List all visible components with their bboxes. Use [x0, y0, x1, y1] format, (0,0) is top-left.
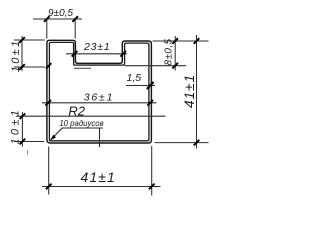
dimension 10±1 top-left lower tick: [19, 64, 25, 70]
dimension 9±0,5 left extension: [46, 19, 48, 39]
svg-text:8±0,5: 8±0,5: [164, 38, 175, 65]
dimension 10±1 bottom-left lower tick: [20, 139, 26, 145]
shared top extension (8±0,5 and right 41±1): [153, 40, 209, 42]
dimension 9±0,5 line: [33, 18, 82, 20]
note leader arrowhead: [50, 135, 56, 141]
note underline: [62, 127, 103, 129]
dimension 10±1 bottom-left lower extension: [14, 141, 44, 143]
dimension 41±1 right line: [196, 35, 198, 149]
svg-text:R2: R2: [68, 104, 85, 119]
svg-text:10 радиусов: 10 радиусов: [59, 119, 103, 128]
dimension 9±0,5 right tick: [72, 16, 78, 22]
dimension 1,5 tick on wall: [147, 82, 154, 89]
scan speck: [27, 150, 29, 155]
note leader diagonal: [52, 128, 63, 139]
dimension 1,5 line: [126, 85, 155, 87]
inner ledge segment under left tab: [74, 67, 91, 69]
dimension 8±0,5 lower extension: [125, 65, 186, 67]
svg-text:23±1: 23±1: [83, 41, 110, 53]
note leader vertical branch: [99, 128, 101, 147]
dimension 10±1 bottom-left upper tick: [20, 113, 26, 119]
svg-text:9±0,5: 9±0,5: [48, 8, 73, 19]
dimension 41±1 bottom line: [42, 186, 161, 188]
dimension 41±1 bottom right extension: [151, 146, 153, 196]
dimension 41±1 right lower extension: [155, 142, 209, 144]
dimension 10±1 top-left line: [21, 36, 23, 71]
dimension 41±1 bottom left tick: [46, 184, 52, 190]
svg-text:10±1: 10±1: [9, 107, 21, 145]
paper background: [0, 0, 209, 207]
dimension 23±1 left tick: [72, 51, 78, 57]
dimension 41±1 bottom left extension: [48, 147, 50, 195]
dimension 10±1 top-left lower extension: [14, 66, 45, 68]
profile inner contour: [49, 42, 148, 140]
dimension 9±0,5 right extension: [74, 19, 76, 39]
profile outer contour: [47, 40, 151, 143]
svg-text:41±1: 41±1: [181, 74, 197, 108]
dimension 10±1 top-left upper tick: [19, 37, 25, 43]
dimension 36±1 line: [42, 102, 157, 104]
dimension 23±1 line: [66, 53, 127, 55]
svg-text:10±1: 10±1: [10, 39, 22, 73]
svg-text:36±1: 36±1: [84, 91, 114, 103]
dimension 10±1 top-left upper extension: [14, 39, 45, 41]
svg-text:1,5: 1,5: [126, 72, 141, 84]
dimension 8±0,5 upper tick: [172, 38, 178, 44]
long reference line (R2 shelf): [16, 115, 166, 117]
tick on left wall at inner ledge: [46, 63, 51, 68]
dimension 9±0,5 left tick: [44, 16, 50, 22]
svg-text:41±1: 41±1: [80, 169, 115, 185]
dimension 41±1 bottom right tick: [149, 184, 155, 190]
dimension 36±1 left tick: [45, 100, 51, 106]
dimension 36±1 right tick: [147, 100, 153, 106]
dimension 10±1 bottom-left line: [21, 112, 23, 147]
dimension 41±1 right upper tick: [194, 38, 200, 44]
dimension 8±0,5 line: [174, 36, 176, 71]
dimension 8±0,5 lower tick: [172, 63, 178, 69]
dimension 23±1 right tick: [120, 51, 126, 57]
dimension 41±1 right lower tick: [194, 140, 200, 146]
